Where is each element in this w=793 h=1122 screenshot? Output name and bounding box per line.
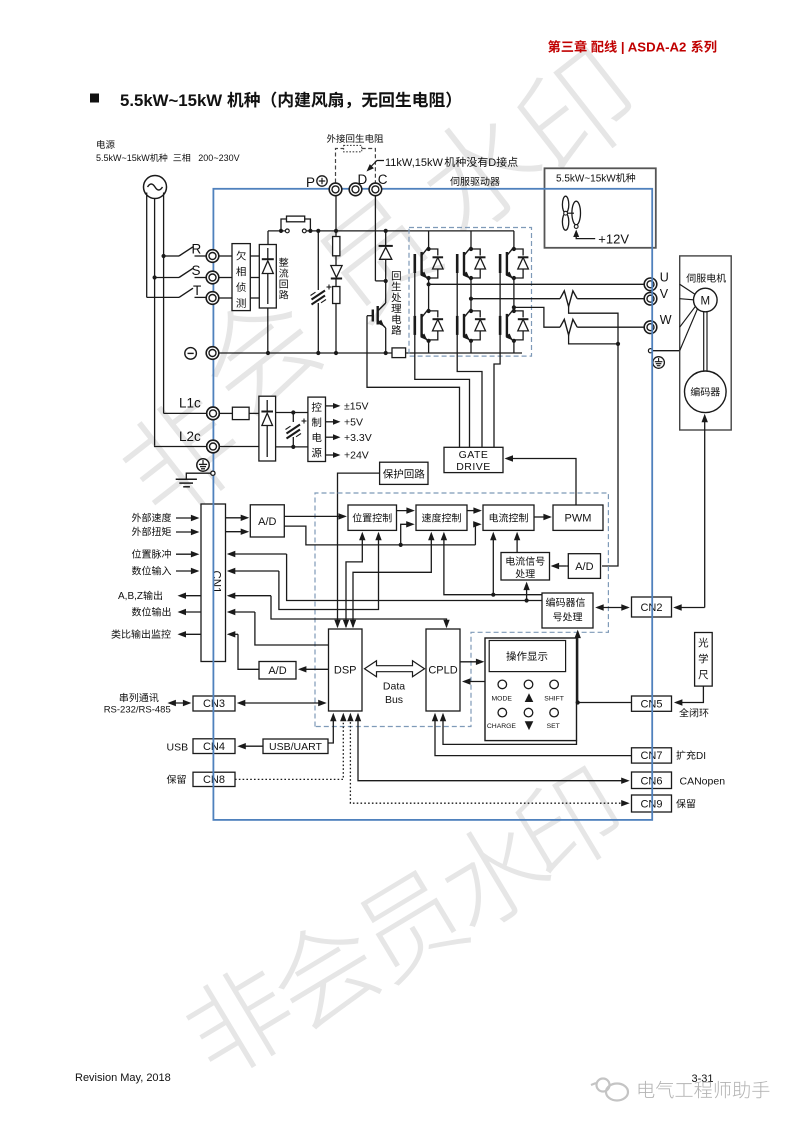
wire capacitor branch — [316, 229, 320, 233]
keypad down arrow — [525, 721, 534, 730]
svg-text:A,B,Z: A,B,Z — [118, 591, 143, 602]
wire protection to DSP — [338, 473, 380, 626]
wire CN1 pulse net staircase — [229, 553, 287, 555]
arrow speed to current — [467, 510, 480, 512]
svg-text:Bus: Bus — [385, 694, 403, 706]
fan symbol 2 — [568, 212, 575, 214]
connector CN1 box — [201, 504, 226, 662]
svg-text:11kW,15kW: 11kW,15kW — [385, 157, 443, 169]
arrow DSP to AD lower — [300, 668, 329, 670]
encoder circle — [685, 371, 727, 413]
node R junction — [162, 254, 166, 258]
connector CN5 box — [632, 696, 672, 711]
data bus double arrow — [365, 661, 425, 677]
svg-text:+5V: +5V — [344, 417, 363, 429]
CN1 input arrows — [176, 517, 198, 519]
arrow CN1 to AD 1 — [226, 517, 248, 519]
minus symbol — [185, 348, 197, 360]
label external regen resistor — [327, 134, 336, 143]
terminal PE small circle — [648, 349, 652, 353]
switch T — [147, 296, 179, 298]
label servo motor — [686, 273, 695, 282]
shunt resistor block — [392, 348, 406, 358]
svg-text:W: W — [660, 313, 672, 327]
wire discharge to minus bus — [335, 304, 337, 354]
label full closed loop — [679, 708, 689, 717]
svg-text:A/D: A/D — [268, 665, 286, 677]
connector CN7 box — [632, 748, 672, 763]
wire current sense W tap — [569, 335, 618, 344]
external regen resistor dashed outline — [336, 149, 344, 183]
motor shaft — [703, 312, 705, 371]
terminal U — [644, 278, 657, 291]
terminal L1c — [207, 407, 220, 420]
IGBT bridge dashed box — [409, 228, 532, 357]
label operation display — [506, 651, 516, 661]
footer watermark text — [639, 1081, 655, 1098]
block AD current — [568, 554, 600, 579]
terminal minus — [206, 347, 219, 360]
svg-text:5.5kW~15kW: 5.5kW~15kW — [556, 174, 616, 185]
label regen processing circuit — [392, 271, 401, 280]
wire AD to speed and current control staircase — [284, 526, 475, 545]
transistor regen IGBT — [385, 281, 387, 303]
keypad up arrow — [525, 693, 534, 702]
wire optical scale to CN5 — [676, 686, 704, 702]
wire CN1 ABZ output staircase to CPLD — [229, 595, 271, 597]
svg-text:GATE: GATE — [459, 449, 489, 461]
wire current signal proc to current control — [516, 534, 518, 553]
arrow CN1 to AD 2 — [226, 531, 248, 533]
control section dashed boundary — [315, 493, 608, 727]
transistor IGBT upper leg x428 — [428, 231, 430, 247]
wire PWM to gate drive — [507, 459, 577, 506]
transistor IGBT upper leg x471 — [470, 231, 472, 247]
label reserved CN9 — [676, 799, 686, 808]
node phase output x428 — [427, 282, 431, 286]
fan symbol 1 — [562, 196, 568, 213]
wire source to L1c — [164, 412, 207, 414]
svg-text:±15V: ±15V — [344, 401, 368, 413]
block DSP — [329, 629, 363, 711]
resistor discharge upper — [333, 237, 340, 256]
svg-text:U: U — [660, 271, 669, 285]
servo drive blue box outline — [213, 189, 652, 820]
switch R — [164, 255, 179, 257]
svg-text:+24V: +24V — [344, 450, 369, 462]
node S junction — [153, 275, 157, 279]
svg-text:DI: DI — [696, 751, 706, 762]
terminal P — [329, 183, 342, 196]
arrow CPLD to keypad — [460, 661, 483, 663]
wire CN1 digital input staircase — [229, 570, 279, 572]
svg-text:MODE: MODE — [492, 696, 513, 703]
wire capacitor to minus bus — [317, 303, 319, 353]
svg-text:V: V — [660, 287, 669, 301]
wire CN1 analog monitor to AD lower — [229, 633, 238, 635]
arrow keypad to CPLD — [464, 681, 485, 683]
label reserved CN8 — [167, 775, 177, 784]
fan +12V supply arrow — [573, 230, 579, 238]
terminal C — [369, 183, 382, 196]
svg-text:5.5kW~15kW: 5.5kW~15kW — [120, 91, 222, 110]
wire source to L2c — [155, 445, 207, 448]
svg-text:L2c: L2c — [179, 429, 201, 444]
svg-text:+12V: +12V — [598, 232, 629, 247]
ground symbol circled right — [653, 357, 665, 369]
transistor IGBT lower leg x513 — [512, 309, 516, 313]
svg-text:USB/UART: USB/UART — [269, 741, 322, 753]
arrow encoder proc to CN2 bidirectional — [597, 607, 628, 609]
svg-text:CANopen: CANopen — [680, 775, 726, 787]
resistor discharge lower — [333, 287, 340, 304]
label rectifier circuit — [279, 258, 288, 267]
svg-text:DRIVE: DRIVE — [456, 461, 491, 473]
svg-text:Data: Data — [383, 681, 405, 693]
ground small circle redraw — [211, 471, 215, 475]
wire W phase right — [577, 326, 644, 328]
fuse block L1c — [219, 412, 232, 414]
block encoder signal processing — [542, 593, 593, 628]
diode regen — [384, 229, 388, 233]
block current control — [483, 505, 534, 530]
arrow USBUART to CN4 — [239, 745, 263, 747]
svg-text:| ASDA-A2: | ASDA-A2 — [621, 40, 686, 55]
label servo drive — [450, 177, 459, 186]
wire phase-loss to rectifier — [250, 255, 259, 257]
CN1 output arrows — [179, 595, 201, 597]
wire W phase staircase — [514, 307, 560, 327]
keypad outer box — [485, 638, 577, 741]
wire R to phase-loss box — [219, 255, 232, 257]
wire CN8 to DSP dotted — [235, 715, 343, 780]
block phase-loss detection — [232, 244, 250, 311]
wire DSP to CN9 dotted — [350, 715, 627, 804]
watermark diagonal text lower — [175, 955, 304, 1084]
wire DSP to speed control — [353, 534, 431, 628]
wire S to phase-loss box — [219, 277, 232, 279]
connector CN8 box — [193, 772, 235, 786]
svg-text:CN1: CN1 — [210, 570, 222, 593]
label expansion DI — [676, 750, 685, 759]
connector CN3 box — [193, 696, 235, 711]
CN1 left input labels — [132, 513, 141, 522]
wire rectifier bottom to minus bus — [267, 308, 269, 353]
block optical scale — [695, 633, 713, 687]
wire rectifier top to P bus — [267, 231, 269, 245]
wire control rectifier outputs — [276, 412, 308, 414]
wire P bus — [268, 230, 286, 232]
wire CPLD to keypad bottom — [443, 715, 577, 745]
terminal R — [206, 250, 219, 263]
control power output arrows — [326, 405, 339, 407]
current sensor W zigzag — [560, 319, 577, 335]
svg-text:SET: SET — [547, 723, 560, 730]
label serial comm — [120, 693, 128, 702]
wire P terminal drop — [335, 196, 337, 237]
wire U phase — [429, 283, 645, 285]
capacitor DC bus — [312, 291, 326, 300]
svg-text:CHARGE: CHARGE — [487, 723, 517, 730]
ground terminal circled — [197, 459, 209, 471]
annotation arrow no D contact — [369, 161, 384, 169]
transistor IGBT upper leg x513 — [513, 231, 515, 247]
keypad display box — [489, 641, 565, 672]
soft-charge resistor bypass — [279, 229, 283, 233]
block CPLD — [426, 629, 460, 711]
svg-text:USB: USB — [167, 741, 189, 753]
svg-text:DSP: DSP — [334, 665, 357, 677]
wire CN1 digital output staircase to DSP — [229, 611, 255, 613]
AC source circle — [144, 176, 167, 199]
external regen resistor element dotted — [344, 145, 362, 151]
svg-text:+3.3V: +3.3V — [344, 432, 372, 444]
wire P bus continued — [306, 230, 514, 232]
wire minus bus right — [406, 352, 522, 354]
svg-text:A/D: A/D — [575, 561, 593, 573]
svg-text:D: D — [488, 157, 496, 169]
terminal D — [349, 183, 362, 196]
svg-text:P: P — [306, 175, 315, 190]
fan unit box — [545, 168, 656, 248]
watermark diagonal text upper — [109, 383, 254, 528]
terminal L2c redraw — [207, 440, 220, 453]
wire keypad to CN5 — [576, 700, 580, 704]
svg-text:200~230V: 200~230V — [198, 153, 239, 163]
wire C terminal drop — [374, 196, 376, 281]
arrow CN3 to DSP bidirectional — [239, 702, 325, 704]
node phase output x471 — [469, 297, 473, 301]
keypad buttons row2 — [498, 708, 507, 717]
wire DSP to position control — [346, 534, 362, 628]
block rectifier circuit — [259, 245, 276, 309]
connector CN4 box — [193, 739, 235, 754]
diode discharge — [331, 266, 342, 278]
block AD lower — [259, 662, 296, 680]
label encoder — [691, 387, 700, 396]
motor M circle — [680, 284, 696, 294]
wire PE to motor — [653, 350, 680, 352]
label power supply — [97, 140, 105, 149]
svg-text:R: R — [192, 242, 202, 257]
capacitor control bus — [292, 413, 294, 423]
wire USBUART to DSP — [328, 715, 333, 744]
wire V phase left — [471, 298, 560, 300]
current sensor V zigzag — [560, 291, 577, 307]
svg-text:M: M — [701, 295, 711, 307]
section title bullet — [90, 94, 99, 103]
footer watermark logo bird — [591, 1079, 628, 1101]
terminal V — [644, 292, 657, 305]
svg-text:PWM: PWM — [565, 513, 592, 525]
wire keypad net up to encoder proc — [577, 632, 579, 703]
block speed control — [416, 505, 467, 530]
terminal T — [206, 292, 219, 305]
node phase output x513 — [512, 305, 516, 309]
block PWM — [553, 505, 603, 530]
svg-text:SHIFT: SHIFT — [544, 696, 564, 703]
block current signal processing — [501, 553, 550, 581]
arrow serial to CN3 bidirectional — [169, 702, 189, 704]
arrow position to speed — [397, 510, 414, 512]
svg-text:CPLD: CPLD — [428, 665, 457, 677]
terminal S — [206, 271, 219, 284]
block position control — [348, 505, 397, 530]
terminal L2c — [207, 440, 220, 453]
block control power supply — [308, 397, 326, 461]
wire DSP to CN6 — [358, 715, 628, 781]
svg-text:RS-232/RS-485: RS-232/RS-485 — [104, 704, 171, 715]
block AD upper — [250, 505, 284, 537]
svg-text:L1c: L1c — [179, 396, 201, 411]
transistor IGBT lower leg x471 — [469, 309, 473, 313]
wire T to phase-loss box — [219, 297, 232, 299]
block protection circuit — [380, 462, 428, 484]
relay contact left — [285, 229, 289, 233]
ground symbol earth — [186, 473, 211, 479]
switch S — [155, 277, 179, 279]
transistor IGBT lower leg x428 — [427, 309, 431, 313]
terminal W — [644, 321, 657, 334]
connector CN6 box — [632, 772, 672, 789]
terminal L1c redraw — [207, 407, 220, 420]
ground small circle — [211, 471, 215, 475]
wire current sense to AD — [602, 344, 618, 566]
servo motor box — [680, 256, 732, 430]
wire L2c to rectifier2 — [219, 446, 259, 448]
wire V phase right — [577, 298, 644, 300]
svg-text:Revision May, 2018: Revision May, 2018 — [75, 1072, 171, 1084]
svg-text:5.5kW~15kW: 5.5kW~15kW — [96, 153, 150, 163]
connector CN2 box — [632, 597, 672, 617]
block gate drive — [444, 447, 503, 472]
wire minus bus — [219, 352, 392, 354]
relay contact right — [302, 229, 306, 233]
wire gate lines to gate drive — [414, 255, 416, 335]
wire branch up to current signal processing — [525, 598, 529, 602]
page header chapter title — [548, 40, 560, 53]
keypad buttons row1 — [498, 680, 507, 689]
encoder cable arrow — [702, 414, 708, 423]
block control rectifier — [259, 396, 276, 461]
svg-text:T: T — [193, 283, 201, 298]
wire current sense V tap — [569, 307, 618, 344]
wire regen gate — [367, 315, 373, 317]
svg-text:A/D: A/D — [258, 516, 276, 528]
connector CN9 box — [632, 795, 672, 812]
wire encoder cable to CN2 — [675, 607, 705, 609]
svg-text:S: S — [192, 263, 201, 278]
wire AD to position control — [284, 515, 345, 517]
arrow current to PWM — [534, 516, 550, 518]
block USB UART — [263, 739, 328, 754]
wire CPLD to CN7 — [435, 715, 631, 756]
wire source phase lines — [146, 193, 148, 298]
arrow AD to current signal processing — [553, 565, 567, 567]
wire encoder feedback to speed and current control — [444, 534, 542, 595]
